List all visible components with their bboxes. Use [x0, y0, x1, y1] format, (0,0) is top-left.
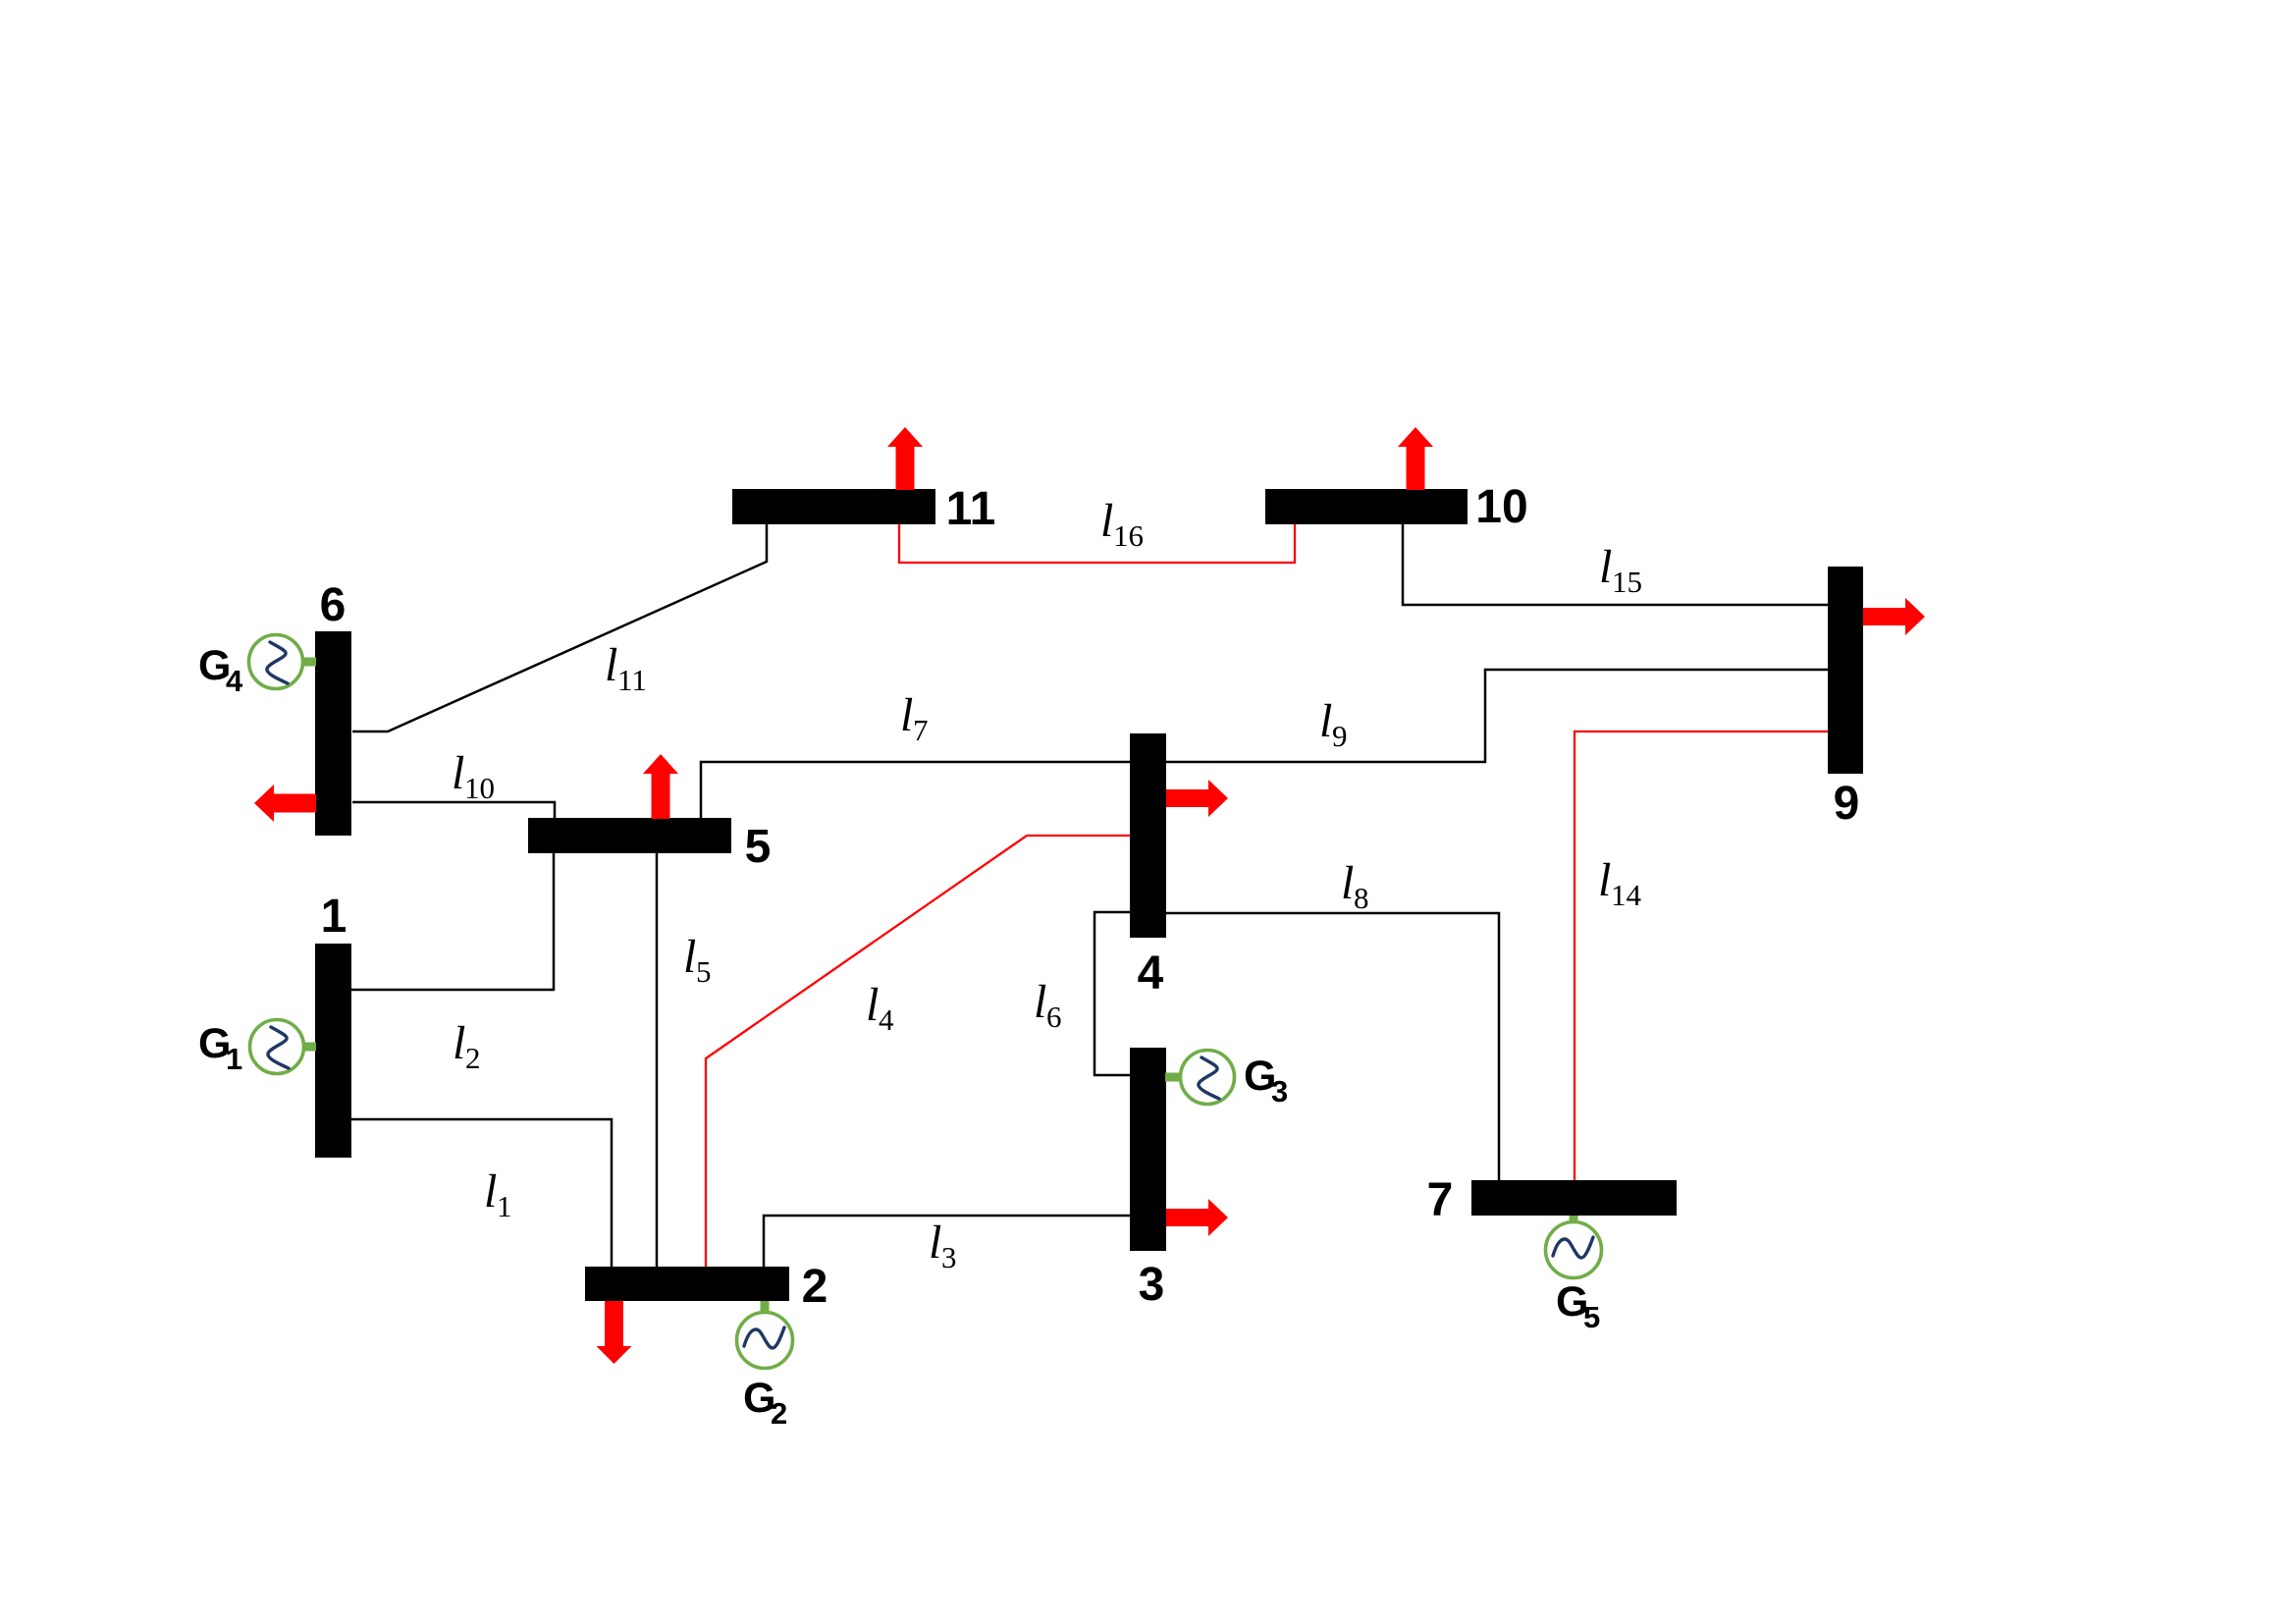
svg-text:8: 8	[1354, 881, 1369, 915]
svg-text:9: 9	[1332, 719, 1348, 753]
bus 1	[315, 944, 351, 1158]
wire line l3 bus2-bus3	[764, 1216, 1130, 1267]
label bus 9	[1834, 778, 1860, 830]
svg-text:11: 11	[946, 483, 996, 535]
bus 5	[528, 818, 731, 853]
label generator G5	[1556, 1278, 1600, 1334]
load arrow bus 11 (up)	[887, 427, 923, 490]
label line l8	[1341, 857, 1369, 915]
svg-text:3: 3	[1139, 1259, 1165, 1311]
svg-text:16: 16	[1113, 518, 1144, 553]
label bus 10	[1475, 481, 1527, 533]
label line l2	[453, 1017, 481, 1075]
svg-text:11: 11	[617, 663, 647, 697]
wire line l4 bus2-bus4 (red overloaded)	[706, 836, 1130, 1267]
label bus 3	[1139, 1259, 1165, 1311]
label line l10	[452, 747, 495, 805]
generator G1 at bus 1	[250, 1020, 317, 1074]
label line l1	[484, 1165, 512, 1223]
label line l9	[1319, 695, 1348, 753]
wire line l2 bus1-bus5	[351, 853, 554, 990]
bus 6	[315, 631, 351, 836]
label line l7	[900, 689, 929, 747]
label bus 1	[321, 891, 347, 943]
svg-text:4: 4	[226, 664, 243, 698]
svg-text:l: l	[1598, 854, 1611, 906]
label generator G2	[743, 1375, 787, 1431]
wire line l8 bus4-bus7	[1166, 913, 1499, 1180]
wire line l5 bus5-bus2	[656, 853, 659, 1267]
svg-text:2: 2	[771, 1396, 787, 1431]
svg-text:l: l	[1034, 976, 1046, 1028]
svg-text:l: l	[900, 689, 913, 741]
load arrow bus 6 (left)	[254, 785, 316, 822]
load arrow bus 9 (right)	[1863, 598, 1925, 635]
svg-text:10: 10	[464, 771, 495, 805]
svg-text:l: l	[452, 747, 464, 799]
svg-text:l: l	[683, 931, 696, 983]
generator G2 at bus 2	[737, 1301, 793, 1369]
label line l14	[1598, 854, 1642, 912]
svg-text:6: 6	[320, 579, 347, 631]
label bus 6	[320, 579, 347, 631]
svg-text:9: 9	[1834, 778, 1860, 830]
label bus 11	[946, 483, 996, 535]
label generator G1	[198, 1020, 242, 1076]
wire line l6 bus4-bus3	[1095, 912, 1130, 1075]
bus 9	[1828, 567, 1863, 774]
svg-text:l: l	[866, 979, 879, 1031]
generator G5 at bus 7	[1546, 1216, 1602, 1278]
svg-text:7: 7	[1427, 1174, 1454, 1226]
svg-text:1: 1	[321, 891, 347, 943]
svg-text:3: 3	[941, 1240, 957, 1274]
svg-text:5: 5	[745, 821, 772, 873]
wire line l9 bus4-bus9	[1166, 670, 1828, 762]
svg-text:l: l	[1100, 495, 1113, 547]
label bus 5	[745, 821, 772, 873]
bus 4	[1130, 733, 1166, 938]
svg-text:l: l	[1341, 857, 1354, 909]
label line l6	[1034, 976, 1062, 1034]
svg-text:15: 15	[1612, 565, 1642, 599]
label generator G3	[1244, 1053, 1288, 1109]
svg-text:l: l	[1319, 695, 1332, 747]
bus 7	[1471, 1180, 1677, 1216]
bus 11	[732, 489, 935, 524]
svg-text:7: 7	[913, 713, 929, 747]
svg-text:2: 2	[802, 1261, 828, 1313]
svg-text:l: l	[484, 1165, 497, 1218]
label bus 2	[802, 1261, 828, 1313]
svg-text:6: 6	[1046, 1000, 1062, 1034]
svg-text:1: 1	[226, 1042, 242, 1076]
label line l5	[683, 931, 712, 989]
svg-text:4: 4	[879, 1002, 894, 1037]
bus 3	[1130, 1048, 1166, 1251]
svg-text:5: 5	[696, 954, 712, 989]
load arrow bus 10 (up)	[1398, 427, 1433, 490]
wire line l1 bus1-bus2	[351, 1119, 612, 1267]
svg-text:l: l	[453, 1017, 465, 1069]
label generator G4	[198, 642, 243, 698]
svg-text:1: 1	[497, 1189, 512, 1223]
label line l16	[1100, 495, 1144, 553]
svg-text:l: l	[605, 639, 617, 691]
generator G3 at bus 3	[1165, 1051, 1235, 1105]
bus 10	[1265, 489, 1468, 524]
load arrow bus 5 (up)	[643, 754, 678, 819]
wire line l10 bus6-bus5	[352, 802, 555, 818]
label bus 7	[1427, 1174, 1454, 1226]
svg-text:l: l	[929, 1217, 941, 1269]
wire line l7 bus5-bus4	[701, 762, 1130, 818]
generator G4 at bus 6	[249, 635, 317, 689]
wire line l16 bus11-bus10 (red overloaded)	[899, 524, 1295, 563]
svg-text:14: 14	[1611, 878, 1642, 912]
load arrow bus 2 (down)	[597, 1301, 632, 1364]
svg-text:10: 10	[1475, 481, 1527, 533]
label bus 4	[1138, 947, 1164, 1000]
label line l4	[866, 979, 894, 1037]
bus 2	[585, 1267, 789, 1301]
svg-text:2: 2	[465, 1041, 481, 1075]
svg-text:3: 3	[1271, 1074, 1288, 1109]
load arrow bus 3 (right)	[1166, 1199, 1228, 1236]
svg-text:4: 4	[1138, 947, 1164, 1000]
svg-text:5: 5	[1583, 1300, 1600, 1334]
wire line l15 bus10-bus9	[1403, 524, 1828, 605]
load arrow bus 4 (right)	[1166, 780, 1228, 817]
label line l3	[929, 1217, 957, 1274]
label line l15	[1599, 541, 1642, 599]
wire line l11 bus6-bus11	[352, 524, 767, 731]
wire line l14 bus9-bus7 (red overloaded)	[1575, 731, 1828, 1180]
svg-text:l: l	[1599, 541, 1612, 593]
label line l11	[605, 639, 647, 697]
